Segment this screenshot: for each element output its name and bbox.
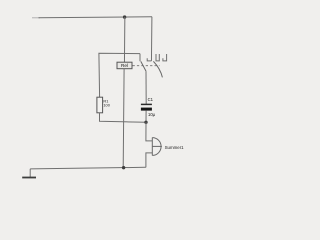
capacitor C1 bottom plate (polarized, thick) [141,108,152,111]
contact K2 break-frame U terminal [156,54,159,61]
wire left loop: contact NC terminal over to R1 top [99,53,140,97]
node junction relay coil to rail [122,166,125,169]
wire C1 bottom to junction node [145,111,147,123]
svg-text:10µ: 10µ [148,112,156,117]
wire relay coil top feed [123,17,125,62]
contact K1 movable arm (closed onto NC) [141,61,146,71]
ground stub wire [29,169,31,178]
wire R1 bottom to junction [100,113,147,123]
contact K1 NC fixed terminal [139,54,141,62]
svg-text:Rel: Rel [121,63,128,68]
relay coil Rel box [117,62,132,68]
buzzer Summer1 symbol [152,138,162,156]
wire top supply rail (faint start) [32,17,40,19]
node junction top (relay feed tap) [123,15,126,18]
contact K1 NO hook terminal [147,58,151,61]
svg-text:C1: C1 [148,97,154,102]
capacitor C1 top plate [141,103,152,105]
contact K2 NO hook terminal [163,54,167,61]
ground bar [22,177,36,179]
wire junction down to buzzer top lead [146,122,152,141]
wire bottom ground rail [30,167,146,169]
svg-text:100: 100 [103,102,110,107]
node junction R1/C1/buzzer [144,121,147,124]
wire relay coil bottom to ground rail [122,69,125,168]
wire rail down to contact K1 NO terminal [150,17,152,61]
wire contact K1 common down to C1 [145,71,147,104]
contact K2 movable arm (open) [153,61,162,77]
dashed mechanical link relay to contacts [133,65,160,67]
resistor R1 box [97,97,103,113]
wire top supply rail [39,17,153,18]
svg-text:Summer1: Summer1 [165,145,185,150]
wire buzzer bottom lead down to rail [146,153,152,167]
